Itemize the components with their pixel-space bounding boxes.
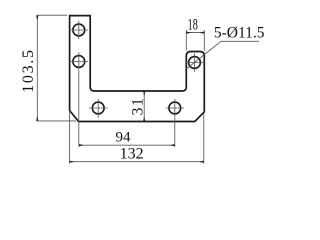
dimension 132 extension line right	[203, 114, 205, 164]
dimension 94 text	[116, 129, 132, 145]
hole H3 crosshair	[89, 99, 107, 118]
hole H2 circle	[73, 56, 85, 68]
svg-text:31: 31	[130, 96, 147, 115]
dimension 31 line	[143, 91, 145, 121]
dimension 103.5 extension line bottom	[37, 120, 76, 122]
dimension 18 text	[188, 17, 198, 34]
svg-text:18: 18	[188, 17, 198, 34]
hole H2 crosshair	[70, 52, 88, 70]
dimension 18 extension line left	[185, 30, 187, 51]
svg-text:132: 132	[120, 146, 144, 163]
dimension 132 line	[70, 161, 204, 163]
hole H1 crosshair	[70, 21, 88, 39]
hole H4 circle	[169, 102, 181, 114]
hole H1 circle	[73, 24, 85, 36]
dimension 132 extension line left	[69, 112, 71, 164]
dimension 94 extension line left	[78, 71, 80, 147]
dimension 94 extension line right	[174, 118, 176, 147]
dimension 103.5 line	[36, 16, 38, 121]
svg-text:5-Ø11.5: 5-Ø11.5	[214, 25, 265, 42]
dimension 31 text	[130, 96, 147, 115]
hole H3 circle	[92, 102, 104, 114]
svg-text:103.5: 103.5	[20, 48, 37, 93]
hole H4 crosshair	[166, 99, 184, 118]
hole H5 circle	[189, 57, 201, 69]
dimension 18 extension line right	[203, 30, 205, 51]
svg-text:94: 94	[116, 129, 132, 145]
leader line 5-O11.5	[185, 41, 259, 70]
part outline	[70, 16, 205, 122]
hole H5 crosshair	[185, 53, 203, 71]
dimension 18 line	[187, 32, 204, 34]
dimension 103.5 extension line top	[37, 14, 67, 16]
dimension 94 line	[79, 144, 174, 146]
dimension 103.5 text	[20, 48, 37, 93]
dimension 132 text	[120, 146, 144, 163]
callout 5-O11.5 text	[214, 25, 265, 42]
